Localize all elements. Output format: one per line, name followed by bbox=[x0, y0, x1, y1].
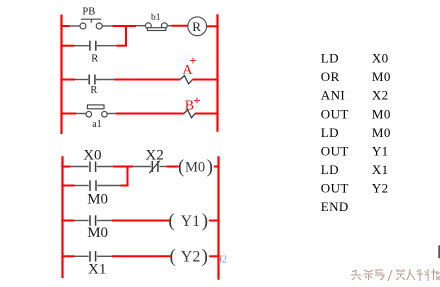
svg-text:OUT: OUT bbox=[321, 106, 349, 121]
svg-text:OR: OR bbox=[321, 69, 340, 84]
svg-text:M0: M0 bbox=[87, 192, 108, 208]
svg-text:M0: M0 bbox=[372, 106, 391, 121]
svg-text:M0: M0 bbox=[372, 125, 391, 140]
svg-text:Y2: Y2 bbox=[372, 181, 389, 196]
svg-text:PB: PB bbox=[82, 6, 95, 17]
svg-text:): ) bbox=[202, 210, 208, 231]
svg-text:END: END bbox=[321, 199, 349, 214]
svg-text:OUT: OUT bbox=[321, 143, 349, 158]
svg-text:LD: LD bbox=[321, 125, 339, 140]
svg-text:+: + bbox=[189, 53, 196, 68]
svg-text:a1: a1 bbox=[92, 119, 101, 130]
svg-text:2: 2 bbox=[222, 254, 227, 265]
svg-text:R: R bbox=[91, 53, 98, 64]
svg-text:R: R bbox=[192, 19, 201, 34]
svg-text:X0: X0 bbox=[372, 51, 389, 66]
svg-text:M0: M0 bbox=[87, 225, 108, 241]
svg-text:M0: M0 bbox=[185, 159, 205, 175]
svg-text:LD: LD bbox=[321, 162, 339, 177]
svg-text:X1: X1 bbox=[88, 262, 106, 278]
svg-text:X1: X1 bbox=[372, 162, 389, 177]
svg-text:LD: LD bbox=[321, 51, 339, 66]
svg-text:Y2: Y2 bbox=[181, 249, 201, 266]
svg-text:b1: b1 bbox=[151, 13, 161, 23]
svg-text:M0: M0 bbox=[372, 69, 391, 84]
svg-text:Y1: Y1 bbox=[181, 213, 201, 230]
svg-text:X2: X2 bbox=[145, 147, 163, 163]
svg-text:): ) bbox=[207, 156, 213, 177]
svg-text:Y1: Y1 bbox=[372, 143, 389, 158]
svg-text:OUT: OUT bbox=[321, 181, 349, 196]
svg-text:+: + bbox=[193, 93, 200, 108]
svg-text:ANI: ANI bbox=[321, 88, 345, 103]
svg-text:(: ( bbox=[170, 246, 176, 267]
svg-text:X2: X2 bbox=[372, 88, 389, 103]
svg-text:X0: X0 bbox=[83, 148, 101, 164]
svg-text:R: R bbox=[90, 85, 97, 96]
svg-text:): ) bbox=[202, 246, 208, 267]
svg-text:(: ( bbox=[168, 210, 174, 231]
svg-text:(: ( bbox=[178, 156, 184, 177]
